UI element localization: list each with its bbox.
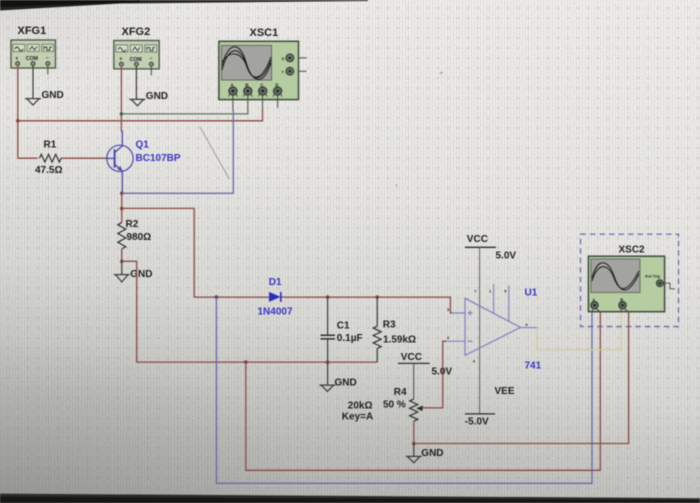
wire XFG1 + down to R1 <box>18 65 38 158</box>
ground symbol (XFG1) <box>25 99 41 105</box>
wire C1 ground lead <box>327 362 329 385</box>
resistor R1 <box>40 154 61 162</box>
wire R2 bottom <box>121 249 123 261</box>
transistor Q1 <box>107 131 133 194</box>
wire R4 node to XSC2 B- <box>414 312 629 444</box>
wire R4 to ground <box>413 444 415 457</box>
power VEE <box>465 413 495 415</box>
diode D1 <box>269 292 281 302</box>
wire XFG2 to XSC1 B (green) <box>121 109 247 114</box>
wire ground bus to R3 bottom <box>122 261 377 362</box>
function generator XFG1 <box>11 40 56 68</box>
stray diagonal mark <box>200 127 230 179</box>
node C1 top <box>326 295 330 299</box>
oscilloscope XSC2 <box>588 256 675 312</box>
wire R2 to ground <box>121 261 123 274</box>
wire XFG2 COM to ground <box>135 66 137 99</box>
node R4 bottom <box>412 442 416 446</box>
capacitor C1 <box>327 297 329 335</box>
op-amp U1 <box>444 284 537 355</box>
ground symbol (R2) <box>114 275 130 282</box>
node XFG2 green junction <box>120 112 124 116</box>
oscilloscope XSC1 <box>219 41 299 99</box>
node R3 top <box>375 295 379 299</box>
stub XFG2 minus <box>150 66 152 76</box>
node C1 bottom <box>326 360 330 364</box>
speck marks <box>440 72 443 74</box>
resistor R3 <box>376 297 378 326</box>
selection dashed box around XSC2 <box>581 234 679 326</box>
resistor R2 <box>118 223 126 249</box>
wire XSC1 A to emitter (blue) <box>122 111 233 193</box>
node R2 bottom <box>120 260 124 264</box>
power VCC (op-amp) <box>465 246 496 248</box>
node branch to D1 chain <box>120 207 124 211</box>
wire R4 wiper to op-amp minus <box>423 341 447 408</box>
power VCC (R4) <box>398 362 430 364</box>
wire XSC2 A- loop (red) <box>246 312 601 470</box>
R4 wiper arrow <box>416 406 423 412</box>
wire VCC to R4 top <box>413 363 415 399</box>
XSC1 pin stubs A B C D <box>232 95 234 111</box>
wire emitter node to D1 anode <box>122 208 269 297</box>
node D1 blue branch <box>215 295 219 299</box>
wire XFG1 node to XSC1 C <box>18 108 263 121</box>
node XFG1 junction <box>16 119 20 123</box>
wire R4 bottom <box>413 421 415 444</box>
wire emitter down to R2 <box>121 193 123 222</box>
XSC1 right stubs <box>299 58 307 71</box>
wire op-amp output to XSC2 B+ (yellow) <box>537 312 621 350</box>
node ground bus branch <box>244 360 248 364</box>
wire VCC to op-amp pin7 <box>479 247 481 413</box>
wire XFG2 + down to Q1 collector <box>120 66 123 132</box>
stub XFG1 minus <box>47 65 49 75</box>
potentiometer R4 <box>410 399 418 421</box>
wire R1 to Q1 base <box>61 157 107 159</box>
ground symbol (C1) <box>319 385 335 391</box>
function generator XFG2 <box>114 41 159 69</box>
ground symbol (XFG2) <box>129 99 145 105</box>
wire XSC2 A+ loop (blue) <box>216 297 592 483</box>
node emitter junction <box>120 192 124 196</box>
wire XFG1 COM to ground <box>32 65 34 98</box>
wire D1 cathode to op-amp + input <box>282 297 453 313</box>
ground symbol (R4) <box>406 456 422 462</box>
